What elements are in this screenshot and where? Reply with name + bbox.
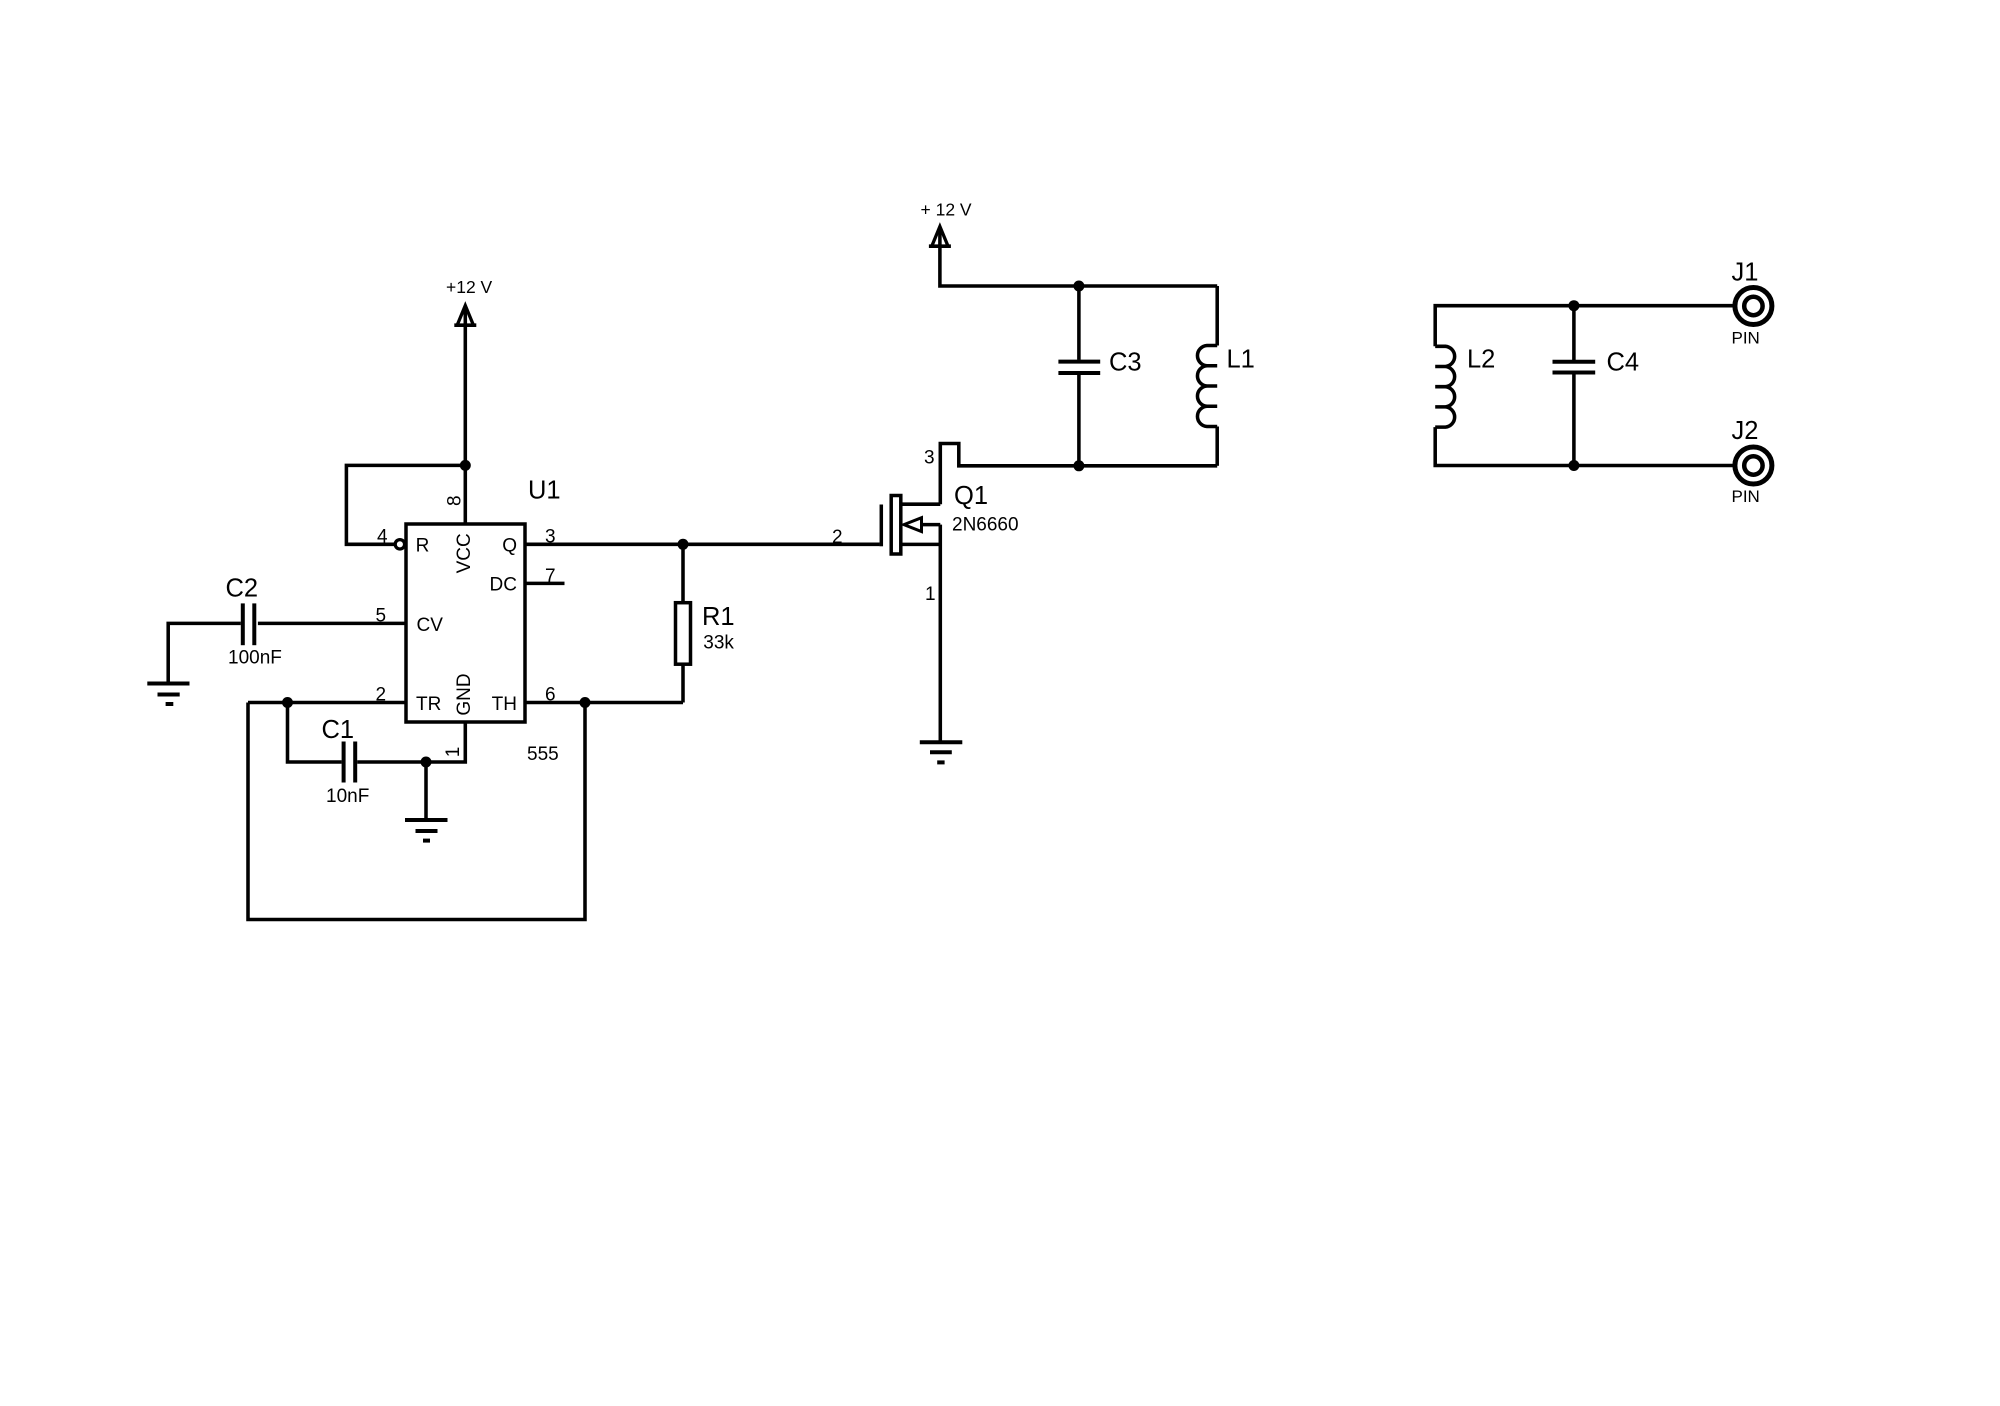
- wire TH pin 6 to R1: [525, 701, 683, 705]
- power +12V symbol (U1 supply): [454, 306, 476, 326]
- capacitor C4: [1553, 306, 1596, 466]
- wire C2 to ground: [168, 623, 241, 683]
- svg-text:TR: TR: [416, 694, 441, 715]
- svg-text:R: R: [416, 535, 430, 556]
- svg-text:VCC: VCC: [454, 533, 475, 573]
- inversion bubble pin 4 (R): [395, 540, 404, 549]
- junction node VCC: [460, 460, 471, 471]
- svg-text:TH: TH: [492, 694, 517, 715]
- svg-text:+12 V: +12 V: [446, 277, 493, 297]
- svg-text:C1: C1: [322, 716, 355, 744]
- wire TR pin 2: [248, 701, 406, 705]
- svg-text:PIN: PIN: [1732, 329, 1760, 348]
- transistor Q1 (2N6660 MOSFET): [881, 496, 940, 555]
- IC U1 555 body: [406, 524, 525, 722]
- wire Q1 source to ground: [939, 525, 943, 743]
- wire pin1 node to ground: [424, 762, 428, 820]
- junction node C4 bottom: [1568, 460, 1579, 471]
- svg-text:J2: J2: [1732, 417, 1759, 445]
- wire Q output pin 3 to gate of Q1: [525, 543, 880, 547]
- junction node tank bottom / C3: [1073, 460, 1084, 471]
- svg-text:10nF: 10nF: [326, 786, 369, 807]
- svg-text:L1: L1: [1227, 346, 1255, 374]
- wire C1 to TR node: [288, 703, 342, 763]
- capacitor C2: [243, 603, 255, 645]
- svg-text:DC: DC: [490, 575, 517, 596]
- svg-text:2: 2: [832, 527, 843, 548]
- svg-text:PIN: PIN: [1732, 487, 1760, 506]
- svg-text:J1: J1: [1732, 259, 1759, 287]
- capacitor C3: [1058, 286, 1100, 466]
- svg-text:1: 1: [925, 584, 936, 605]
- svg-text:8: 8: [445, 495, 466, 506]
- svg-text:555: 555: [527, 744, 559, 765]
- svg-text:100nF: 100nF: [228, 648, 282, 669]
- wire +12V to tank top: [940, 229, 1217, 287]
- junction node tank top / C3: [1073, 281, 1084, 292]
- junction node Q output / R1 top: [678, 539, 689, 550]
- svg-text:C2: C2: [226, 574, 259, 602]
- svg-text:4: 4: [377, 527, 388, 548]
- svg-text:2N6660: 2N6660: [952, 515, 1019, 536]
- svg-text:+ 12 V: + 12 V: [921, 200, 972, 220]
- svg-text:3: 3: [924, 448, 935, 469]
- svg-text:L2: L2: [1467, 346, 1495, 374]
- junction node C4 top: [1568, 300, 1579, 311]
- junction node TR / C1: [282, 697, 293, 708]
- ground symbol (Q1 source): [920, 742, 963, 762]
- svg-text:1: 1: [443, 747, 464, 758]
- svg-text:C4: C4: [1607, 349, 1640, 377]
- svg-text:GND: GND: [454, 673, 475, 715]
- wire GND pin 1 to C1: [357, 722, 465, 762]
- wire reset loop pin 4 to VCC node: [346, 465, 465, 544]
- ground symbol (pin 1): [405, 820, 448, 841]
- wire +12V to VCC pin 8: [464, 308, 468, 525]
- wire DC pin 7 stub: [525, 582, 565, 586]
- feedback loop wire TR to TH: [248, 703, 585, 920]
- inductor L1: [1197, 286, 1217, 466]
- connector J2: [1735, 447, 1772, 484]
- wire L2 / C4 / J1 top: [1435, 306, 1735, 347]
- svg-text:33k: 33k: [703, 632, 734, 653]
- capacitor C1: [344, 742, 356, 783]
- wire Q1 drain to tank circuit: [940, 444, 1217, 505]
- svg-text:C3: C3: [1109, 349, 1142, 377]
- wire L2 bottom / C4 / J2: [1435, 427, 1735, 465]
- ground symbol (C2): [147, 684, 189, 705]
- connector J1: [1735, 288, 1772, 325]
- svg-text:R1: R1: [702, 603, 735, 631]
- resistor R1: [676, 544, 691, 702]
- junction node pin1 / ground: [421, 757, 432, 768]
- junction node TH / loop: [580, 697, 591, 708]
- wire CV pin 5 to C2: [258, 622, 406, 626]
- svg-text:Q: Q: [502, 535, 517, 556]
- power +12V symbol (tank supply): [929, 227, 951, 247]
- inductor L2: [1435, 346, 1454, 427]
- svg-text:CV: CV: [417, 615, 444, 636]
- svg-text:U1: U1: [528, 477, 561, 505]
- svg-text:Q1: Q1: [954, 482, 988, 510]
